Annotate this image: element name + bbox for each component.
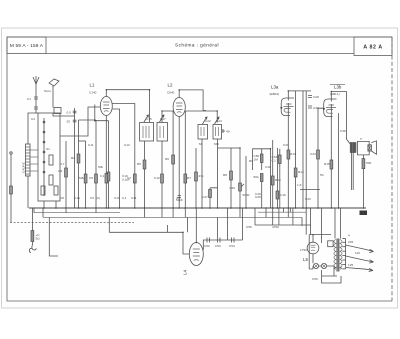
terre terminal box [54, 108, 61, 114]
T4 tap 3 [342, 246, 345, 248]
stub x266 [265, 208, 267, 217]
svg-text:C16: C16 [280, 193, 286, 197]
antenna [33, 76, 39, 84]
rail E stub a [283, 208, 285, 212]
switch wire right [49, 217, 58, 256]
heater wire bottom left of psu [301, 217, 303, 226]
wire L2 right bottom [184, 111, 186, 208]
stub x144 [144, 208, 146, 217]
T1 trimmer arrow a [144, 115, 149, 122]
svg-text:47k: 47k [199, 174, 204, 178]
svg-text:(C): (C) [96, 196, 100, 200]
bus junction 31 [331, 207, 333, 209]
bus junction 19 [217, 207, 219, 209]
svg-text:L1: L1 [90, 83, 95, 88]
svg-text:C4: C4 [31, 117, 35, 121]
capacitor C5 [95, 174, 98, 183]
capacitor C15 [279, 155, 282, 164]
bus junction 30 [317, 207, 319, 209]
svg-text:R14: R14 [298, 170, 304, 174]
svg-text:C31: C31 [283, 143, 289, 147]
mains lead 1 [346, 245, 366, 250]
wire frame aerial bottom [27, 176, 29, 208]
IF transformer T2 primary box [198, 125, 208, 140]
wire L3b anode x331 [330, 99, 332, 209]
svg-text:R13: R13 [290, 152, 296, 156]
svg-text:C15: C15 [146, 117, 152, 121]
svg-text:C11: C11 [88, 143, 94, 147]
title block header line [46, 53, 354, 55]
svg-text:C17: C17 [160, 117, 166, 121]
tube L3b [324, 99, 337, 117]
bus junction 3 [65, 207, 67, 209]
wire x196 [195, 148, 197, 208]
mains arrow 2 [366, 260, 374, 263]
L4 electrodes [193, 249, 200, 261]
pickup lead wire [10, 154, 12, 222]
wire rail D drop [108, 217, 110, 232]
input coil box S1 [38, 113, 60, 201]
wire x306 long [305, 91, 307, 235]
capacitor C16 [276, 191, 279, 199]
svg-text:245: 245 [348, 240, 353, 244]
svg-text:1M: 1M [58, 169, 63, 173]
resistor R5 [143, 160, 146, 169]
psu lower link [322, 270, 341, 283]
svg-text:4,7: 4,7 [60, 162, 65, 166]
wire T2 secondary bottom [217, 139, 219, 208]
wire coil box right to bus [55, 201, 57, 208]
T4 tap 1 [342, 238, 345, 240]
L2 electrodes [176, 103, 183, 113]
svg-text:Schéma : général: Schéma : général [175, 43, 219, 48]
stub x66 [65, 208, 67, 213]
switch contact column [43, 118, 45, 196]
svg-text:50: 50 [320, 173, 324, 177]
mains switch assembly [31, 208, 33, 245]
wire L2 plate top [179, 90, 206, 111]
rail D grid feed [109, 231, 183, 233]
frame right edge dashed [391, 37, 393, 301]
capacitor C13 [178, 196, 182, 198]
svg-text:C26: C26 [229, 186, 235, 190]
antenna lead wire [35, 84, 37, 113]
wire x108 down [108, 121, 110, 208]
title block left box [7, 37, 46, 54]
capacitor C2b [73, 120, 77, 122]
bus junction 16 [195, 207, 197, 209]
svg-text:0,1: 0,1 [272, 159, 277, 163]
svg-text:5Ω: 5Ω [36, 237, 41, 241]
wire x255 drop [254, 208, 256, 225]
wire x96 [95, 120, 97, 208]
svg-text:C59: C59 [312, 277, 318, 281]
svg-text:125: 125 [348, 263, 353, 267]
wire x167 drop2 [167, 225, 169, 232]
volume pot R9 [239, 183, 242, 191]
svg-text:C8: C8 [60, 196, 64, 200]
svg-text:R9: R9 [249, 159, 253, 163]
svg-text:Terre: Terre [44, 89, 51, 93]
resistor R10b [260, 174, 263, 182]
mains transformer T4 left winding [334, 240, 336, 270]
svg-text:R12: R12 [275, 178, 281, 182]
speaker frame box [357, 141, 369, 155]
wire x295 [295, 91, 297, 208]
svg-text:C47: C47 [202, 195, 208, 199]
capacitor C12 [161, 174, 164, 183]
wire frame aerial top [28, 113, 38, 144]
wire L1 screen right [112, 104, 135, 209]
T4 tap 5 [342, 255, 345, 257]
wire L2 screen right [185, 111, 217, 123]
svg-text:CADRE: CADRE [22, 162, 26, 173]
pickup terminal [10, 152, 12, 154]
wire pot down [239, 191, 241, 208]
contact c [43, 141, 45, 143]
wire top y120 [79, 119, 97, 121]
bus junction 14 [178, 207, 180, 209]
svg-text:C11: C11 [131, 196, 137, 200]
wire x242 up [242, 208, 244, 240]
resistor R6 [172, 155, 175, 164]
bus junction 18 [209, 207, 211, 209]
bus junction 24 [272, 207, 274, 209]
wire T2 primary bottom [201, 139, 203, 208]
lamp 2 cross [322, 264, 326, 268]
svg-text:C12: C12 [124, 143, 130, 147]
svg-text:L2: L2 [168, 83, 173, 88]
L3a junction dot [280, 107, 282, 109]
bus junction 20 [230, 207, 232, 209]
capacitor C7 [133, 174, 136, 183]
wire pot to grid [231, 147, 240, 149]
rail E stub b [289, 208, 291, 212]
svg-text:500: 500 [366, 161, 371, 165]
earth lead wire [52, 86, 54, 108]
below-bus rail E [258, 211, 306, 213]
svg-text:1,5: 1,5 [297, 183, 302, 187]
T1 secondary coil [160, 126, 164, 138]
L3b electrodes [326, 105, 336, 113]
resistor R14 [294, 168, 297, 177]
title block right box [354, 37, 392, 56]
T4 tap 7 [342, 264, 345, 266]
speaker cone [371, 141, 376, 154]
psu top rail [309, 234, 331, 236]
svg-text:50k: 50k [254, 175, 259, 179]
wire coil box to bus [43, 201, 45, 208]
svg-text:C24: C24 [216, 119, 222, 123]
dial lamp 1 [313, 263, 318, 268]
stub x162 [161, 208, 163, 217]
wire x338 [338, 113, 340, 208]
wire L2 aux left bottom [172, 111, 174, 208]
svg-text:R8: R8 [223, 173, 227, 177]
wire T1 primary bottom [144, 141, 146, 208]
wire x292 drop [292, 208, 294, 225]
joint dot 6 [161, 110, 163, 112]
trimmer C3 [54, 186, 58, 195]
rail A riser [33, 208, 35, 213]
mains lead 2 [346, 256, 366, 261]
resistor R13 [287, 150, 290, 159]
svg-text:C10: C10 [114, 196, 120, 200]
wire T1 secondary bottom [161, 141, 163, 208]
svg-text:L3b: L3b [334, 85, 342, 90]
T4 core [337, 239, 339, 272]
voice coil cross [368, 145, 372, 151]
svg-text:C53: C53 [215, 244, 221, 248]
wire L3b top [331, 92, 346, 140]
wire x85 [85, 141, 87, 208]
wire osc coil left [95, 105, 109, 121]
resistor R15 [330, 160, 333, 169]
svg-text:C54: C54 [229, 244, 235, 248]
svg-text:R7: R7 [187, 176, 191, 180]
bus junction 10 [134, 207, 136, 209]
wire x340 drop [340, 208, 342, 239]
joint dot 9 [239, 147, 241, 149]
svg-text:C1A: C1A [74, 196, 81, 200]
bus junction 15 [184, 207, 186, 209]
svg-text:L3a: L3a [271, 85, 279, 90]
svg-text:4700: 4700 [272, 225, 279, 229]
wire y225 link [255, 224, 311, 226]
stub x288 [287, 208, 289, 217]
L3b junction dot [323, 108, 325, 110]
T4 right winding [340, 240, 342, 270]
wire x246 [245, 156, 247, 208]
coil S2 [49, 155, 53, 165]
coupling tick 1 [30, 149, 38, 151]
resistor R7 [184, 174, 187, 183]
bus junction 28 [302, 207, 304, 209]
frame aerial coil [26, 144, 31, 176]
C15 lead [279, 149, 281, 208]
wire x78 [78, 120, 80, 208]
svg-text:110: 110 [355, 251, 360, 255]
L3a electrodes [284, 104, 294, 112]
wire L4 top [195, 208, 197, 243]
wire x323 [318, 108, 323, 208]
wire terre link [53, 114, 75, 117]
wire L1 grid right lower [112, 109, 119, 208]
svg-text:R15: R15 [324, 162, 330, 166]
svg-text:C1: C1 [27, 97, 31, 101]
svg-text:a: a [360, 137, 362, 141]
svg-text:25: 25 [67, 120, 71, 124]
resistor R1 [65, 168, 68, 177]
capacitor C21 [218, 238, 221, 243]
wire x187 drop2 [187, 217, 189, 232]
wire x303 [302, 91, 304, 208]
R10 lead [261, 149, 263, 170]
resistor R12 [271, 176, 274, 185]
antenna cap C1b [34, 107, 38, 109]
bus junction 23 [265, 207, 267, 209]
T2 primary coil [201, 127, 204, 136]
svg-text:C48: C48 [265, 165, 271, 169]
contact d [43, 151, 45, 153]
bus junction 7 [106, 207, 108, 209]
svg-text:R2: R2 [71, 156, 75, 160]
bus junction 27 [295, 207, 297, 209]
bus junction 8 [108, 207, 110, 209]
wire x321 drop [321, 208, 323, 243]
resistor R17 [195, 172, 198, 181]
wire x278 drop [278, 208, 280, 225]
wire x66 [65, 141, 67, 208]
tube L4 [189, 243, 203, 266]
joint dot 13 [312, 234, 314, 236]
contact a [43, 121, 45, 123]
coupling tick 4 [30, 170, 38, 172]
svg-text:L5: L5 [303, 257, 308, 262]
wire x272 drop [272, 208, 274, 225]
joint dot 7 [216, 110, 218, 112]
wire L2 cathode bottom [178, 117, 180, 209]
svg-text:C33: C33 [305, 197, 311, 201]
bus junction 25 [277, 207, 279, 209]
bus junction 1 [43, 207, 45, 209]
svg-text:0,1: 0,1 [100, 174, 105, 178]
T3 winding lines [352, 143, 355, 153]
bus junction 29 [305, 207, 307, 209]
rectifier tube L5 [307, 242, 319, 254]
stub x173 [172, 208, 174, 217]
capacitor C2a [73, 111, 77, 113]
L5 internals [311, 245, 316, 251]
rail A [34, 212, 120, 214]
cathode resistor Rk1 [105, 174, 108, 184]
svg-text:M 59 A - 159 A: M 59 A - 159 A [10, 43, 44, 49]
bus junction 13 [172, 207, 174, 209]
svg-text:MD: MD [214, 142, 220, 146]
L1 electrodes [103, 102, 110, 112]
pickup cap [10, 186, 13, 194]
svg-text:50k: 50k [98, 165, 103, 169]
stub x240 [239, 208, 241, 217]
T2 trimmer arrow b [215, 117, 220, 124]
svg-text:A 82 A: A 82 A [363, 45, 382, 51]
wire speaker down [362, 155, 364, 208]
joint dot 8 [94, 120, 96, 122]
svg-text:a: a [348, 233, 350, 237]
detector loop wire [253, 149, 271, 208]
svg-text:L4: L4 [183, 270, 188, 275]
IF transformer T2 secondary box [213, 125, 222, 140]
bus junction 21 [239, 207, 241, 209]
bus junction 17 [201, 207, 203, 209]
svg-text:C5: C5 [89, 176, 93, 180]
mains arrow 1 [366, 249, 374, 252]
bus junction 32 [338, 207, 340, 209]
T4 tap bus [345, 239, 347, 269]
wire T3 secondary bottom [352, 153, 354, 191]
wire hor y141 [79, 140, 86, 142]
joint dot 3 [178, 89, 180, 91]
joint dot 4 [288, 90, 290, 92]
wire x227 drop [227, 208, 229, 240]
resistor R18 [209, 190, 212, 198]
svg-text:49: 49 [226, 130, 230, 134]
resistor R10 [260, 154, 263, 163]
svg-text:1M: 1M [254, 158, 259, 162]
svg-text:R5: R5 [137, 162, 141, 166]
mains lead 3 [346, 268, 366, 270]
svg-text:(EBF2): (EBF2) [270, 92, 280, 96]
svg-text:R6: R6 [165, 157, 169, 161]
svg-text:C12: C12 [154, 176, 160, 180]
wire rectifier bottom [312, 254, 314, 263]
IF transformer T1 secondary box [157, 123, 168, 142]
wire L3a anode x288 [287, 98, 289, 209]
wire x217 drop [217, 217, 219, 237]
wire L1 cathode bottom [105, 116, 107, 209]
coupling tick 2 [30, 156, 38, 158]
joint dot 5 [331, 91, 333, 93]
coupling tick 3 [30, 163, 38, 165]
tube L1 [100, 97, 112, 116]
wire x74 [74, 108, 76, 208]
coil S3 [49, 175, 53, 185]
bus junction 12 [161, 207, 163, 209]
resistor R16 [362, 159, 365, 169]
resistor R2 [77, 154, 80, 163]
T2 trimmer arrow a [203, 117, 208, 124]
svg-text:C22: C22 [205, 119, 211, 123]
bus junction 6 [95, 207, 97, 209]
wire L3a top [288, 91, 311, 98]
R9 wiper [241, 184, 244, 187]
rail B riser [42, 208, 44, 217]
joint dot 2 [149, 89, 151, 91]
svg-text:M: M [199, 142, 202, 146]
svg-text:4,5: 4,5 [176, 196, 181, 200]
antenna coupling capacitor C1 [34, 97, 38, 99]
frame aerial winding lines [26, 147, 31, 174]
T1 trimmer arrow b [160, 115, 165, 122]
trimmer C2 [41, 186, 45, 195]
wire x332 drop [334, 208, 336, 239]
stub x185 [184, 208, 186, 217]
T4 tap 8 [342, 268, 345, 270]
voice coil [368, 145, 372, 151]
joint dot 1 [106, 89, 108, 91]
wire y189 link [300, 189, 320, 191]
wire x310 drop [310, 208, 312, 235]
joint dot 10 [270, 148, 272, 150]
T4 tap 4 [342, 250, 345, 252]
bus junction 5 [85, 207, 87, 209]
joint dot 11 [182, 232, 184, 234]
wire detector feed [218, 148, 232, 208]
capacitor C6 [107, 172, 110, 181]
svg-text:C7: C7 [127, 176, 131, 180]
switch fuse body [31, 231, 34, 242]
output transformer T3 [350, 143, 356, 153]
switch hook 1 [32, 245, 37, 250]
svg-text:50k: 50k [79, 176, 84, 180]
svg-text:C840: C840 [167, 91, 175, 95]
wire x272 [272, 140, 274, 208]
capacitor C17 side [308, 96, 312, 98]
T4 tap 6 [342, 259, 345, 261]
tube L3a [281, 98, 294, 116]
svg-text:C34: C34 [310, 152, 316, 156]
resistor R3 [84, 174, 87, 183]
